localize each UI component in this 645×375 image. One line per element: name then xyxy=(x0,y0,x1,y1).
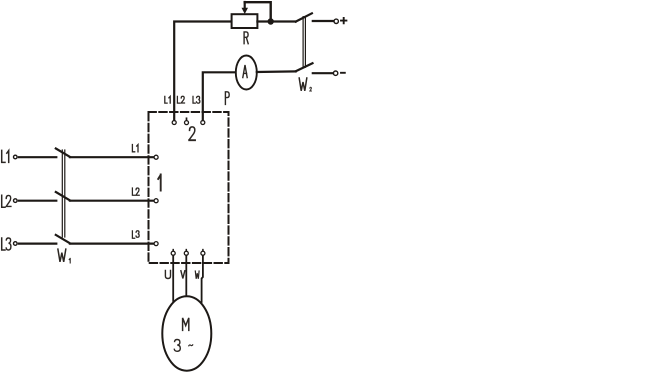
wire xyxy=(19,156,56,158)
terminal W xyxy=(201,250,205,256)
junction xyxy=(268,18,274,24)
pin label L1 (top) xyxy=(165,96,170,103)
wire xyxy=(19,200,56,202)
wire xyxy=(70,243,154,245)
terminal (box left L2) xyxy=(154,199,158,203)
motor M xyxy=(162,296,211,370)
switch W1 xyxy=(56,149,70,263)
pin label L3 (top) xyxy=(193,96,200,103)
label 2 xyxy=(189,127,195,140)
pin label V xyxy=(181,271,185,279)
terminal (box top L2) xyxy=(185,118,189,124)
wire xyxy=(70,200,154,202)
pin label L2 xyxy=(132,188,139,195)
wire xyxy=(313,20,334,22)
wire xyxy=(313,72,333,74)
device enclosure (dashed box) xyxy=(149,112,229,263)
terminal (box top L3) xyxy=(201,121,205,125)
label 1 xyxy=(158,174,161,190)
wire xyxy=(19,243,56,245)
pin label U xyxy=(165,271,170,279)
switch W2 xyxy=(296,13,313,91)
wire xyxy=(70,156,154,158)
ammeter A xyxy=(236,56,257,90)
label P xyxy=(225,92,229,105)
terminal U xyxy=(171,250,175,256)
terminal L3 xyxy=(2,238,17,250)
wire xyxy=(203,72,236,120)
pin label L3 xyxy=(132,231,139,238)
terminal (box left L3) xyxy=(154,242,158,246)
pin label W xyxy=(195,271,199,279)
wire xyxy=(185,255,187,296)
terminal (box left L1) xyxy=(154,155,158,159)
terminal L2 xyxy=(2,195,17,207)
wire xyxy=(257,20,295,22)
pin label L2 (top) xyxy=(177,96,184,103)
wire xyxy=(174,22,231,121)
wire xyxy=(202,255,203,302)
wire xyxy=(257,70,296,73)
terminal L1 xyxy=(2,150,17,162)
terminal (box top L1) xyxy=(172,121,176,125)
terminal + xyxy=(334,18,346,24)
terminal - xyxy=(333,71,344,75)
rheostat R xyxy=(232,2,271,44)
terminal V xyxy=(184,250,188,256)
pin label L1 xyxy=(132,145,138,152)
wire xyxy=(172,255,174,301)
